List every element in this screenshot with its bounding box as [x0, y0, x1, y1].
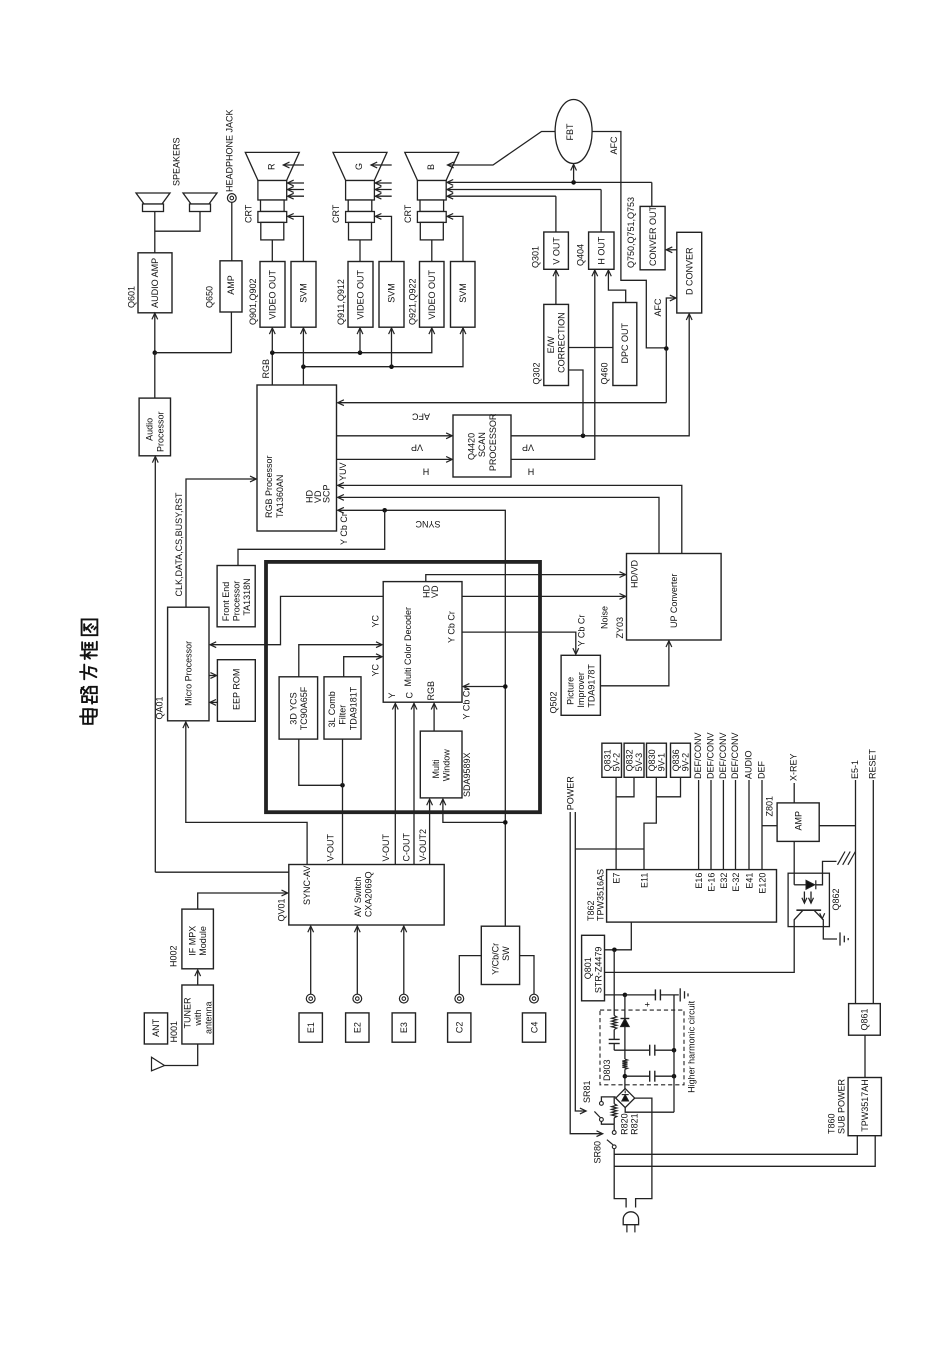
wire to front end — [238, 510, 385, 565]
svg-text:DEF/CONV: DEF/CONV — [693, 732, 703, 779]
CRT B neck — [417, 181, 446, 201]
svg-text:ZY03: ZY03 — [615, 617, 625, 639]
svg-text:C2: C2 — [454, 1022, 464, 1034]
svg-text:Front End: Front End — [221, 582, 231, 622]
svg-text:C-OUT: C-OUT — [402, 833, 412, 862]
svg-text:G: G — [354, 163, 364, 170]
AC line 1 — [570, 812, 602, 1134]
Q861 to sub power — [864, 1035, 866, 1077]
SVM wire G — [375, 216, 391, 261]
Q832 5V-3 — [624, 743, 644, 777]
svg-text:CXA2069Q: CXA2069Q — [364, 871, 374, 917]
svg-text:X-REY: X-REY — [789, 753, 799, 781]
Q801 STR-Z4479 — [582, 935, 605, 1001]
svg-text:Higher harmonic circuit: Higher harmonic circuit — [687, 1000, 697, 1093]
wire IF MPX to SYNC-AV — [198, 893, 288, 909]
svg-text:E5-1: E5-1 — [850, 760, 860, 779]
svg-text:E2: E2 — [353, 1022, 363, 1033]
VD wire decoder to UP — [462, 595, 626, 597]
ANT box — [144, 1013, 167, 1044]
svg-text:DEF: DEF — [756, 760, 766, 779]
svg-text:DEF/CONV: DEF/CONV — [730, 732, 740, 779]
V-OUT2 wire multi window to SYNC-AV — [429, 799, 431, 864]
Q862 box — [788, 873, 829, 926]
svg-text:Audio: Audio — [145, 418, 155, 441]
filter cap — [654, 989, 656, 1000]
svg-text:Q404: Q404 — [576, 244, 586, 266]
svg-text:Processor: Processor — [155, 412, 165, 453]
svg-text:VIDEO OUT: VIDEO OUT — [427, 269, 437, 319]
R820,R821 — [613, 1097, 615, 1104]
svg-text:SYNC: SYNC — [415, 519, 441, 529]
cap branch 2 — [625, 1075, 650, 1077]
svg-text:Multi Color Decoder: Multi Color Decoder — [403, 607, 413, 687]
svg-text:Q862: Q862 — [831, 888, 841, 910]
svg-text:EEP ROM: EEP ROM — [232, 669, 242, 710]
svg-text:E1: E1 — [306, 1022, 316, 1033]
svg-text:E-16: E-16 — [707, 873, 717, 892]
multi color decoder — [383, 582, 462, 703]
eeprom arrows — [209, 675, 216, 677]
3L comb filter TDA9181T — [324, 677, 361, 739]
svg-text:E11: E11 — [640, 873, 650, 888]
CRT G neck — [346, 181, 375, 201]
wire SYNC-AV to Audio Processor — [154, 457, 156, 873]
bridge rectifier — [616, 1089, 635, 1108]
YC wire 2 (comb to decoder) — [344, 657, 382, 677]
plug — [623, 1212, 638, 1225]
svg-text:Picture: Picture — [565, 677, 575, 705]
svg-text:AUDIO AMP: AUDIO AMP — [150, 258, 160, 308]
RGB bus to video outs — [272, 328, 432, 385]
svg-text:ANT: ANT — [151, 1018, 161, 1037]
DPC out Q460 — [613, 303, 637, 386]
bridge right to plug — [635, 1098, 652, 1207]
svg-text:Q601: Q601 — [127, 286, 137, 308]
svg-text:E/W: E/W — [546, 336, 556, 354]
Y/Cb/Cr switch — [481, 926, 519, 984]
input E3 — [399, 994, 408, 1003]
YC wire 1 (3D YCS to decoder) — [299, 645, 382, 677]
chassis ground — [838, 852, 846, 865]
svg-text:antenna: antenna — [203, 1001, 213, 1034]
svg-text:Q302: Q302 — [532, 362, 542, 384]
svg-text:Filter: Filter — [338, 705, 348, 725]
svg-text:Q460: Q460 — [600, 362, 610, 384]
IF MPX module — [182, 909, 214, 969]
svg-text:V-OUT: V-OUT — [381, 833, 391, 861]
SR80 to AC wires and plug — [614, 1149, 626, 1208]
svg-text:Y Cb Cr: Y Cb Cr — [462, 688, 472, 720]
H OUT Q404 — [589, 232, 614, 269]
T860 sub power — [848, 1078, 881, 1136]
SVM R — [291, 262, 316, 328]
svg-text:YC: YC — [371, 663, 381, 676]
svg-text:CORRECTION: CORRECTION — [557, 312, 567, 373]
svg-text:SR80: SR80 — [593, 1141, 603, 1164]
CRT R funnel — [245, 152, 299, 180]
AFC to D CONVER — [666, 298, 676, 348]
svg-text:T860: T860 — [827, 1113, 837, 1134]
svg-text:STR-Z4479: STR-Z4479 — [594, 947, 604, 994]
svg-text:SVM: SVM — [458, 283, 468, 303]
svg-text:Q750,Q751,Q753: Q750,Q751,Q753 — [626, 197, 636, 268]
HD wire decoder to UP — [426, 575, 626, 582]
RGB wire multi window to decoder — [433, 704, 435, 732]
svg-text:T862: T862 — [586, 900, 596, 921]
bridge bottom — [625, 1108, 674, 1113]
svg-text:AFC: AFC — [411, 412, 430, 422]
speaker right — [183, 193, 217, 204]
svg-text:DPC OUT: DPC OUT — [620, 323, 630, 364]
SVM wire R — [288, 216, 304, 261]
C wire decoder to SYNC-AV — [413, 704, 415, 865]
rectified supply node — [605, 994, 625, 996]
svg-text:SR81: SR81 — [582, 1080, 592, 1103]
wire 2 UP converter to RGB — [338, 497, 660, 553]
input C4 — [530, 994, 539, 1003]
svg-text:Multi: Multi — [431, 759, 441, 778]
svg-text:Processor: Processor — [231, 581, 241, 622]
svg-text:SVM: SVM — [299, 283, 309, 303]
svg-text:+: + — [643, 1002, 653, 1007]
svg-text:9V-2: 9V-2 — [680, 753, 690, 772]
DPC OUT to H OUT — [608, 270, 625, 302]
wire to Audio Processor — [154, 353, 156, 398]
svg-text:SCP: SCP — [322, 484, 332, 503]
higher harmonic circuit dashed box — [600, 1010, 684, 1085]
svg-text:V-OUT: V-OUT — [326, 833, 336, 861]
svg-text:VIDEO OUT: VIDEO OUT — [356, 269, 366, 319]
svg-text:E-32: E-32 — [731, 873, 741, 892]
cap branch 1 — [614, 1049, 650, 1051]
front end processor TA1318N — [217, 566, 255, 627]
svg-text:POWER: POWER — [566, 776, 576, 811]
video out R Q901,Q902 — [260, 262, 285, 328]
speaker left — [136, 193, 170, 204]
wire jack to AMP — [231, 202, 233, 260]
emitter ground — [823, 927, 837, 939]
SYNC-AV / AV switch QV01 — [289, 865, 444, 926]
wire CRT G to VIDEO OUT — [359, 240, 361, 262]
svg-text:VP: VP — [522, 443, 534, 453]
light arrows — [803, 892, 805, 904]
svg-text:Y Cb Cr: Y Cb Cr — [577, 615, 587, 647]
svg-text:H: H — [423, 467, 430, 477]
power feed to E11 — [575, 848, 644, 850]
Q861 — [849, 1004, 881, 1036]
svg-text:V-OUT2: V-OUT2 — [418, 829, 428, 862]
Q830 9V-1 — [647, 743, 667, 777]
EEP ROM — [217, 660, 255, 722]
AMP to LED — [793, 841, 795, 884]
svg-text:RGB: RGB — [261, 359, 271, 379]
Y Cb Cr arrow into decoder right — [463, 686, 505, 688]
scan processor Q4420 — [453, 415, 511, 477]
svg-text:E41: E41 — [745, 873, 755, 889]
wire D CONVER to CONVER OUT — [666, 249, 677, 251]
thick highlight box — [266, 562, 540, 812]
wire CONVER OUT top — [651, 182, 653, 206]
E/W correction Q302 — [544, 304, 569, 385]
svg-text:H OUT: H OUT — [597, 236, 607, 265]
svg-text:TDA9181T: TDA9181T — [348, 686, 358, 730]
wire decoder to micro — [210, 596, 383, 644]
svg-text:5V-2: 5V-2 — [612, 753, 622, 772]
svg-text:VIDEO OUT: VIDEO OUT — [268, 269, 278, 319]
svg-text:HEADPHONE JACK: HEADPHONE JACK — [225, 109, 235, 192]
svg-text:R821: R821 — [630, 1113, 640, 1135]
SR80 switch — [612, 1131, 616, 1135]
svg-text:SUB POWER: SUB POWER — [837, 1078, 847, 1134]
svg-text:Q301: Q301 — [531, 246, 541, 268]
E7 wire — [615, 777, 617, 869]
wire speaker-L to AUDIO AMP — [154, 212, 156, 253]
svg-text:SCAN: SCAN — [477, 432, 487, 457]
CRT R SVM coil — [258, 212, 287, 223]
picture improver TDA9178T — [561, 655, 600, 715]
svg-text:YC: YC — [371, 614, 381, 627]
Y Cb Cr wire decoder to picture improver — [462, 632, 576, 654]
Z801 amp — [777, 803, 819, 842]
R820 bottom to SR81 — [601, 1121, 614, 1124]
CRT R neck — [258, 181, 287, 201]
input E2 — [353, 994, 362, 1003]
left RC chain — [613, 950, 615, 1016]
sub power AC wire 1 — [614, 1136, 857, 1155]
svg-text:Improver: Improver — [576, 672, 586, 708]
svg-text:Micro Processor: Micro Processor — [184, 641, 194, 706]
svg-text:H: H — [528, 467, 535, 477]
E11 wire — [644, 777, 656, 869]
CRT B SVM coil — [417, 212, 446, 223]
svg-text:AMP: AMP — [793, 811, 803, 831]
svg-text:TUNER: TUNER — [182, 997, 192, 1028]
SVM bus — [303, 328, 463, 385]
Q831 5V-2 — [602, 743, 622, 777]
VP wire RGB to scan — [337, 435, 453, 437]
svg-text:QV01: QV01 — [277, 898, 287, 921]
wire to AMP — [155, 352, 232, 354]
svg-text:YUV: YUV — [338, 462, 348, 481]
tuner H001 — [182, 985, 214, 1044]
svg-text:QA01: QA01 — [155, 696, 165, 719]
svg-text:Q911,Q912: Q911,Q912 — [336, 279, 346, 325]
VP to right — [511, 314, 689, 436]
svg-text:Y: Y — [387, 692, 397, 698]
svg-text:R: R — [267, 163, 277, 170]
svg-text:E120: E120 — [758, 873, 768, 894]
tuner to IF MPX — [197, 970, 199, 985]
svg-text:SW: SW — [501, 946, 511, 961]
svg-text:CLK,DATA,CS,BUSY,RST: CLK,DATA,CS,BUSY,RST — [174, 492, 184, 597]
3D YCS TC90A65F — [279, 677, 318, 739]
RESET line — [872, 780, 874, 1004]
E/W to V OUT — [555, 270, 557, 304]
bus SYNC-AV to micro — [186, 722, 307, 864]
video out B Q921,Q922 — [420, 262, 445, 328]
svg-text:Y Cb Cr: Y Cb Cr — [339, 513, 349, 545]
svg-text:IF MPX: IF MPX — [188, 926, 198, 956]
svg-text:E7: E7 — [612, 873, 622, 884]
audio processor — [139, 398, 170, 456]
SVM G — [379, 262, 404, 328]
svg-text:RESET: RESET — [868, 748, 878, 779]
svg-text:E16: E16 — [694, 873, 704, 889]
svg-text:with: with — [193, 1010, 203, 1027]
node AFC — [664, 346, 669, 351]
wire V OUT top — [555, 196, 557, 232]
node audio junction — [153, 350, 158, 355]
phototransistor — [796, 909, 821, 911]
svg-text:FBT: FBT — [565, 123, 575, 141]
svg-text:HD/VD: HD/VD — [630, 559, 640, 588]
AFC wire into RGB — [338, 402, 667, 404]
SR80 to R820 node — [613, 1124, 615, 1130]
svg-text:VP: VP — [411, 443, 423, 453]
svg-text:TDA9178T: TDA9178T — [587, 664, 597, 708]
svg-text:SDA9589X: SDA9589X — [462, 752, 472, 797]
svg-text:UP Converter: UP Converter — [669, 574, 679, 628]
wire speaker-R join — [155, 212, 200, 232]
svg-text:TPW3517AH: TPW3517AH — [860, 1079, 870, 1132]
svg-text:C: C — [405, 692, 415, 699]
svg-text:AMP: AMP — [226, 275, 236, 295]
svg-text:Q801: Q801 — [583, 957, 593, 979]
svg-text:Window: Window — [442, 749, 452, 782]
E5-1 line — [855, 780, 857, 1004]
svg-text:D CONVER: D CONVER — [684, 247, 694, 295]
svg-text:9V-1: 9V-1 — [656, 753, 666, 772]
ground — [679, 988, 681, 1001]
wire VP branch to E/W — [569, 370, 584, 436]
V OUT Q301 — [544, 232, 569, 269]
collector wire to Q801 — [605, 927, 795, 973]
svg-text:Noise: Noise — [600, 606, 610, 629]
svg-text:Q650: Q650 — [205, 286, 215, 308]
Y wire decoder to SYNC-AV — [394, 704, 396, 865]
svg-text:RGB Processor: RGB Processor — [264, 455, 274, 518]
wire H OUT top — [600, 190, 602, 233]
Q801 to T862 — [605, 922, 632, 950]
AMP to E5-1 — [819, 825, 855, 827]
Y Cb Cr from SW to multi window — [443, 799, 505, 822]
H to right — [511, 270, 595, 459]
svg-text:Module: Module — [198, 926, 208, 956]
svg-text:AUDIO: AUDIO — [743, 750, 753, 779]
multi window — [420, 731, 462, 798]
svg-text:CRT: CRT — [403, 204, 413, 223]
svg-text:Q861: Q861 — [860, 1009, 870, 1031]
svg-text:TC90A65F: TC90A65F — [299, 686, 309, 730]
svg-text:B: B — [426, 164, 436, 170]
svg-text:TPW3516AS: TPW3516AS — [596, 869, 606, 921]
title 电路方框图 (rotated) — [80, 709, 97, 724]
svg-text:PROCESSOR: PROCESSOR — [488, 413, 498, 471]
svg-text:CRT: CRT — [244, 204, 254, 223]
UP converter — [627, 554, 722, 641]
svg-text:TA1360AN: TA1360AN — [275, 475, 285, 518]
svg-text:Q502: Q502 — [549, 691, 559, 713]
svg-text:H001: H001 — [169, 1021, 179, 1043]
svg-text:DEF/CONV: DEF/CONV — [705, 732, 715, 779]
svg-text:AFC: AFC — [609, 136, 619, 155]
svg-text:Y Cb Cr: Y Cb Cr — [447, 611, 457, 643]
wire CRT B to VIDEO OUT — [431, 240, 433, 262]
svg-text:RGB: RGB — [426, 681, 436, 701]
SYNC wire — [338, 510, 506, 926]
FBT left wire to CRT B — [448, 132, 556, 166]
input E1 — [306, 994, 315, 1003]
svg-text:VD: VD — [430, 585, 440, 598]
SR81 switch — [600, 1102, 604, 1106]
svg-text:SYNC-AV: SYNC-AV — [302, 866, 312, 905]
CRT G funnel — [333, 152, 387, 180]
svg-text:Q4420: Q4420 — [467, 433, 477, 460]
svg-text:Y/Cb/Cr: Y/Cb/Cr — [490, 943, 500, 975]
svg-text:DEF/CONV: DEF/CONV — [718, 732, 728, 779]
svg-text:Q901,Q902: Q901,Q902 — [248, 278, 258, 325]
E120/DEF wire — [761, 780, 763, 870]
svg-text:E32: E32 — [719, 873, 729, 889]
AFC down to RGB wire — [665, 349, 667, 403]
svg-text:AV Switch: AV Switch — [353, 877, 363, 917]
FBT bottom wire — [571, 180, 576, 185]
right vertical — [673, 995, 675, 1112]
FBT — [555, 100, 592, 164]
audio amp Q601 — [138, 253, 172, 313]
CRT B funnel — [405, 152, 459, 180]
CRT G SVM coil — [346, 212, 375, 223]
svg-text:TA1318N: TA1318N — [242, 578, 252, 615]
H wire RGB to scan — [337, 458, 453, 460]
input C2 — [455, 994, 464, 1003]
svg-text:C4: C4 — [529, 1022, 539, 1034]
micro processor QA01 — [168, 607, 209, 721]
svg-text:Q921,Q922: Q921,Q922 — [408, 278, 418, 325]
sub power AC wire 2 — [614, 1136, 875, 1167]
YUV wire UP converter to RGB — [338, 485, 682, 553]
headphone amp Q650 — [220, 261, 242, 312]
wire CRT R to VIDEO OUT — [271, 240, 273, 262]
svg-text:CONVER OUT: CONVER OUT — [648, 205, 658, 266]
picture improver to UP converter — [600, 641, 669, 686]
conver out Q750,Q751,Q753 — [640, 206, 665, 269]
svg-text:3L Comb: 3L Comb — [327, 691, 337, 727]
antenna symbol — [165, 1044, 198, 1066]
pin stub wires + labels — [698, 780, 700, 870]
svg-text:D803: D803 — [602, 1059, 612, 1081]
headphone jack — [227, 194, 236, 203]
diode chain D803 — [624, 995, 626, 1019]
video out G Q911,Q912 — [348, 262, 373, 328]
T862 TPW3516AS — [607, 870, 777, 923]
Q836 9V-2 — [671, 743, 691, 777]
svg-text:3D YCS: 3D YCS — [288, 692, 298, 724]
V-OUT net to comb/3D YCS — [299, 739, 343, 785]
svg-text:SVM: SVM — [387, 283, 397, 303]
svg-text:R820,: R820, — [620, 1111, 630, 1135]
svg-text:Z801: Z801 — [765, 796, 775, 817]
svg-text:V OUT: V OUT — [551, 237, 561, 265]
SVM wire B — [447, 216, 463, 261]
wire into AUDIO AMP — [154, 314, 156, 353]
AC line 2 / power feed — [575, 812, 586, 1111]
RGB processor TA1360AN — [257, 385, 337, 531]
control bus micro to RGB — [186, 479, 256, 607]
svg-text:5V-3: 5V-3 — [634, 753, 644, 772]
deflection wires to CONVER/H/V OUT — [447, 181, 652, 183]
